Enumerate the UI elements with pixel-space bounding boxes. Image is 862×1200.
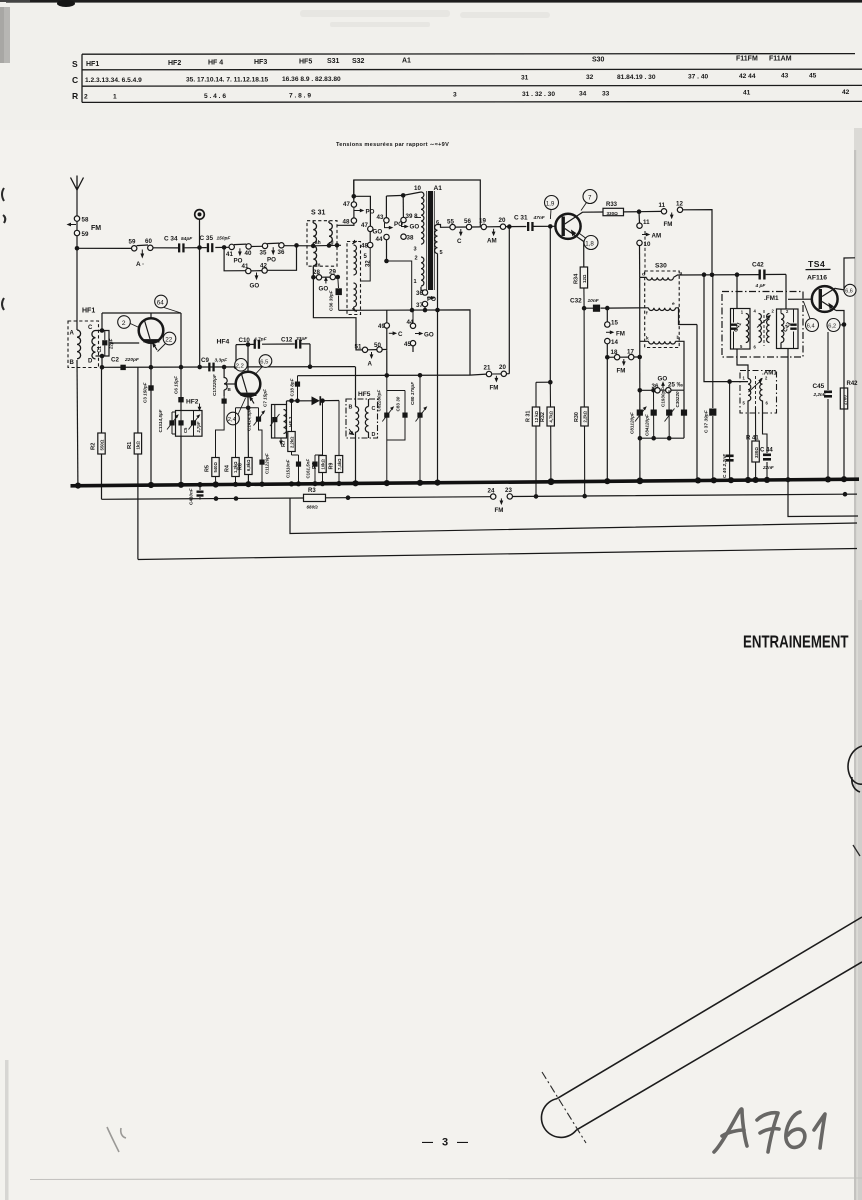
wire C-D box xyxy=(96,313,110,367)
trimmer C13 14,5pF xyxy=(158,409,179,434)
node emitter split xyxy=(236,406,259,411)
wire 43 top to A1 xyxy=(386,192,421,198)
scan edge: top black line xyxy=(0,0,862,7)
svg-text:4 pF: 4 pF xyxy=(755,283,767,289)
svg-text:37: 37 xyxy=(416,302,423,309)
svg-text:C17220pF: C17220pF xyxy=(212,374,217,396)
capacitor C2 220pF xyxy=(111,357,140,371)
wire: return line L1 below bus xyxy=(102,492,858,501)
node base T3 xyxy=(548,224,553,382)
svg-text:24: 24 xyxy=(488,488,495,495)
wire: main AM/FM selector line xyxy=(77,246,313,249)
resistor R33 330 xyxy=(603,202,624,216)
svg-text:R5: R5 xyxy=(205,465,211,472)
svg-text:C5: C5 xyxy=(183,427,188,433)
resistor R7 2,2k xyxy=(281,399,299,456)
svg-text:C: C xyxy=(398,331,403,338)
capacitor C15 10nF xyxy=(286,455,302,484)
svg-text:C1414,5pF: C1414,5pF xyxy=(247,408,252,431)
svg-text:48: 48 xyxy=(343,219,350,226)
S30 coil k-b xyxy=(640,335,684,390)
svg-text:GO: GO xyxy=(250,283,260,290)
transistor T2 xyxy=(224,345,260,404)
voltage circle 2,4 xyxy=(227,398,246,425)
svg-text:HF5: HF5 xyxy=(358,391,371,398)
svg-text:C 34: C 34 xyxy=(164,236,178,243)
wire 12 to right vertical xyxy=(683,210,712,273)
switch contact 10 xyxy=(637,233,661,249)
svg-text:S31: S31 xyxy=(327,58,340,65)
S32 coil upper xyxy=(352,240,357,275)
svg-text:17: 17 xyxy=(627,349,634,356)
svg-text:50: 50 xyxy=(374,342,381,349)
svg-text:10: 10 xyxy=(414,185,421,192)
svg-text:81.84.19 . 30: 81.84.19 . 30 xyxy=(617,74,656,81)
svg-text:36: 36 xyxy=(278,249,285,256)
svg-text:19: 19 xyxy=(479,217,486,224)
svg-text:C81120pF: C81120pF xyxy=(629,412,634,434)
switch contact 21 xyxy=(470,365,492,377)
svg-text:5: 5 xyxy=(440,250,443,256)
svg-text:C7 15pF: C7 15pF xyxy=(263,389,268,407)
wire S30 d down to bus xyxy=(638,277,643,481)
svg-text:R9: R9 xyxy=(328,463,334,470)
resistor R4 1,3k xyxy=(225,408,240,485)
svg-text:41: 41 xyxy=(743,90,751,97)
svg-text:S30: S30 xyxy=(592,57,605,64)
title: measurement note xyxy=(336,142,449,148)
switch contact 18 xyxy=(611,349,620,360)
svg-text:34: 34 xyxy=(579,91,587,98)
svg-text:47nF: 47nF xyxy=(533,215,546,221)
switch wiper FM arrow xyxy=(67,221,102,232)
svg-text:R1: R1 xyxy=(127,441,133,449)
bandswitch S32 dashed box xyxy=(347,242,361,315)
node 28-29 line xyxy=(311,275,340,293)
svg-text:35. 17.10.14. 7. 11.12.18.15: 35. 17.10.14. 7. 11.12.18.15 xyxy=(186,77,268,84)
svg-text:1,9: 1,9 xyxy=(546,200,555,207)
svg-text:R 31: R 31 xyxy=(525,411,531,422)
node C34/C35 junction xyxy=(197,220,202,370)
svg-text:59: 59 xyxy=(129,239,136,246)
svg-text:C9: C9 xyxy=(201,357,209,364)
bus junction dots xyxy=(75,476,847,489)
bottom left pencil squiggle xyxy=(107,1127,126,1152)
node main line left xyxy=(75,246,80,251)
FM1 unit C43 xyxy=(777,309,799,349)
capacitor C45 2,2nF xyxy=(813,332,833,479)
switch contact 59 xyxy=(74,230,89,238)
svg-text:41: 41 xyxy=(226,251,233,258)
svg-text:42: 42 xyxy=(260,262,267,269)
svg-text:33pF: 33pF xyxy=(296,336,308,342)
svg-text:HF 4: HF 4 xyxy=(208,60,223,67)
capacitor C3 150pF xyxy=(143,367,154,485)
capacitor C12 33pF xyxy=(281,336,308,349)
svg-text:R42: R42 xyxy=(847,381,859,387)
svg-text:k: k xyxy=(646,336,649,342)
svg-text:48: 48 xyxy=(361,243,368,250)
resistor R32 4,7k xyxy=(540,382,554,482)
svg-text:a: a xyxy=(680,272,683,277)
svg-text:R2: R2 xyxy=(91,443,97,450)
wire to main line xyxy=(76,236,78,330)
svg-text:7 . 8 . 9: 7 . 8 . 9 xyxy=(289,93,311,100)
node S31 on line xyxy=(311,243,341,248)
node y367 dots xyxy=(100,364,313,369)
trimmer C19 30pF xyxy=(661,388,675,439)
svg-text:150pF: 150pF xyxy=(217,236,232,242)
capacitor C32 10nF xyxy=(570,298,607,312)
voltage circle 2,2 xyxy=(235,359,248,372)
switch contact 47b xyxy=(361,222,382,236)
S31 lower coil xyxy=(313,246,321,277)
voltage circle 22 xyxy=(158,332,176,351)
svg-text:TS4: TS4 xyxy=(808,259,825,269)
terminal post xyxy=(195,210,205,220)
trimmer C12b 2,7pF xyxy=(189,411,201,437)
svg-text:220pF: 220pF xyxy=(124,357,140,363)
wire A1 sec bottom down xyxy=(437,254,439,483)
svg-text:11: 11 xyxy=(659,202,666,209)
svg-text:32: 32 xyxy=(586,74,594,81)
svg-text:11: 11 xyxy=(643,219,650,226)
switch contact 40 xyxy=(245,244,252,258)
right margin hook artifact xyxy=(848,746,862,792)
wire: GO branch below xyxy=(224,245,296,271)
voltage circle 6,5 xyxy=(256,355,272,374)
svg-text:C2: C2 xyxy=(111,357,119,364)
capacitor C34 54pF xyxy=(164,236,193,253)
svg-text:12 kΩ: 12 kΩ xyxy=(534,410,539,422)
wire: diode detector line xyxy=(287,401,340,405)
capacitor C11 220pF xyxy=(259,453,269,484)
capacitor C30 220 xyxy=(675,391,687,416)
svg-text:R 41: R 41 xyxy=(746,436,759,442)
capacitor C6 15pF line xyxy=(174,313,184,485)
svg-text:16.36 8.9 . 82.83.80: 16.36 8.9 . 82.83.80 xyxy=(282,76,341,83)
transistor T3 xyxy=(555,214,580,239)
svg-text:FM: FM xyxy=(490,385,499,392)
svg-text:C3 150pF: C3 150pF xyxy=(143,382,148,403)
svg-text:ENTRAINEMENT: ENTRAINEMENT xyxy=(743,632,849,652)
switch contact 17 xyxy=(617,349,635,375)
switch contact 11b xyxy=(637,212,650,229)
svg-text:330Ω: 330Ω xyxy=(754,447,759,458)
trimmer C5 xyxy=(178,411,187,437)
svg-text:2,7pF: 2,7pF xyxy=(196,421,201,433)
switch contact 11 xyxy=(659,202,667,214)
switch contact 47a xyxy=(343,180,375,216)
svg-text:D: D xyxy=(372,432,376,438)
svg-text:5 . 4 . 6: 5 . 4 . 6 xyxy=(204,93,226,100)
switch contact 43 xyxy=(377,196,404,230)
svg-text:C161,5nF: C161,5nF xyxy=(306,459,311,479)
svg-text:59: 59 xyxy=(82,231,89,238)
svg-text:7: 7 xyxy=(588,195,592,202)
svg-text:20: 20 xyxy=(499,364,506,371)
left margin small marks xyxy=(2,188,5,310)
svg-text:GO: GO xyxy=(319,286,329,293)
label HF4 xyxy=(217,339,230,346)
svg-text:28: 28 xyxy=(313,269,320,276)
svg-text:R8: R8 xyxy=(312,462,318,469)
svg-text:330Ω: 330Ω xyxy=(607,211,619,216)
switch contact 23 xyxy=(495,487,513,514)
trimmer C81 120pF xyxy=(629,406,647,434)
resistor R9 7,4k xyxy=(328,401,342,484)
svg-text:33: 33 xyxy=(602,91,610,98)
svg-text:37 . 40: 37 . 40 xyxy=(688,74,708,81)
wire S31 m to 51 xyxy=(313,277,356,346)
right margin tick xyxy=(853,845,860,856)
svg-text:.FM1: .FM1 xyxy=(764,295,779,302)
svg-text:GO: GO xyxy=(424,332,434,339)
switch contact 48a xyxy=(337,211,357,226)
label S32 vertical xyxy=(364,254,372,267)
capacitor C7 15pF label xyxy=(263,389,268,407)
svg-text:45: 45 xyxy=(809,73,817,80)
resistor R6 6,8k xyxy=(238,458,252,475)
svg-text:AM: AM xyxy=(487,238,497,245)
svg-text:C18 8pF: C18 8pF xyxy=(290,378,295,396)
IF transformer HF5 dash-dot box xyxy=(346,391,378,438)
voltage circle 64 xyxy=(155,295,181,313)
svg-text:56: 56 xyxy=(464,218,471,225)
coupling coil B xyxy=(224,367,231,396)
switch contact 14 xyxy=(605,338,619,346)
svg-text:540Ω: 540Ω xyxy=(213,462,218,473)
voltage circle 1,9 xyxy=(545,196,559,220)
switch contact 60 xyxy=(145,238,153,251)
capacitor C35 150pF xyxy=(200,235,232,252)
switch contact 56 xyxy=(457,218,472,245)
svg-text:A ·: A · xyxy=(136,261,144,268)
trimmer bank bottom line xyxy=(640,390,684,440)
svg-text:FM: FM xyxy=(664,221,673,228)
wire: T2 collector line y344 xyxy=(236,344,310,367)
trimmer block HF2 xyxy=(176,399,203,437)
A1 secondary coil xyxy=(435,220,443,256)
svg-text:C30220: C30220 xyxy=(675,391,680,408)
A1 ferrite core bar xyxy=(427,191,435,290)
svg-text:C83 30: C83 30 xyxy=(396,396,401,411)
svg-text:22: 22 xyxy=(165,336,173,343)
wire collector top line xyxy=(102,313,181,318)
svg-text:HF 3: HF 3 xyxy=(288,416,294,427)
FM1 unit C41 xyxy=(731,309,751,350)
contact table frame xyxy=(82,54,862,103)
svg-text:36: 36 xyxy=(416,290,423,297)
faint ghost print at top xyxy=(300,10,550,27)
svg-text:25 ‰: 25 ‰ xyxy=(668,382,684,389)
svg-text:B: B xyxy=(349,405,353,411)
resistor R42 2700 xyxy=(840,381,858,409)
resistor R34 12 xyxy=(574,267,588,308)
antenna xyxy=(71,176,84,191)
switch contact 29 xyxy=(329,269,336,280)
capacitor C36 39pF xyxy=(329,277,342,311)
svg-text:HF2: HF2 xyxy=(168,60,181,67)
scan edge: left grey strip xyxy=(0,7,10,63)
svg-text:C1314,5pF: C1314,5pF xyxy=(158,409,163,432)
capacitor C44 22nF xyxy=(760,420,774,480)
svg-text:12Ω: 12Ω xyxy=(582,274,587,283)
table row labels S C R xyxy=(72,59,78,101)
node branch right xyxy=(294,243,299,248)
switch contact 25 xyxy=(658,376,684,393)
band centre dash-dot mark xyxy=(542,1072,586,1143)
trimmer C80 175pF xyxy=(410,376,427,483)
wire C32 to S30 f xyxy=(607,307,648,309)
label ENTRAINEMENT xyxy=(743,632,849,652)
capacitor C42 4pF xyxy=(737,262,786,310)
wire FM1 verticals to AM1 xyxy=(737,349,788,480)
wire: line L2 xyxy=(290,498,857,534)
page number xyxy=(422,1137,468,1149)
svg-text:HF2: HF2 xyxy=(186,399,199,406)
svg-text:47: 47 xyxy=(361,222,368,229)
svg-text:R32: R32 xyxy=(540,412,546,422)
wire T3 collector to R33 xyxy=(578,212,603,215)
svg-text:C1: C1 xyxy=(97,346,103,353)
svg-text:31: 31 xyxy=(521,75,529,82)
svg-text:C36 39pF: C36 39pF xyxy=(329,290,334,311)
svg-text:b: b xyxy=(677,335,680,341)
voltage circle 1,8 xyxy=(580,234,599,250)
svg-text:38: 38 xyxy=(407,235,414,242)
svg-text:C80 175pF: C80 175pF xyxy=(410,382,415,405)
wire FM1 base tap to TS4 xyxy=(788,298,812,300)
bandswitch S31 dashed box xyxy=(307,210,337,267)
wire: line L3 xyxy=(138,549,857,560)
table row C text xyxy=(85,73,817,85)
capacitor C31 47nF xyxy=(514,215,546,232)
wire: AVC top line y375 xyxy=(298,373,471,378)
switch contact 59b xyxy=(129,239,137,251)
svg-text:ah: ah xyxy=(315,240,321,246)
svg-text:15: 15 xyxy=(611,320,618,327)
voltage circle 6,4 xyxy=(804,302,819,332)
switch contact 20 xyxy=(487,217,506,245)
capacitor C18 8pF xyxy=(290,376,301,403)
svg-text:GO: GO xyxy=(373,229,383,236)
wire 48b stub xyxy=(361,248,371,281)
svg-text:HF4: HF4 xyxy=(217,339,230,346)
diode D1 xyxy=(312,396,321,405)
capacitor C37 39pF xyxy=(704,275,717,481)
svg-text:36: 36 xyxy=(652,383,659,390)
svg-text:64: 64 xyxy=(157,299,165,306)
wire T2 emitter down through R6 xyxy=(247,396,249,484)
wire base feed T1 xyxy=(109,342,139,344)
A1 primary coil lower xyxy=(414,257,424,286)
svg-text:C: C xyxy=(372,406,376,412)
S31 coil g xyxy=(313,221,333,247)
wire: IF line y227 xyxy=(450,225,556,228)
svg-text:4,7pF: 4,7pF xyxy=(253,336,268,342)
wire A1 sec to main IF line xyxy=(438,225,450,228)
trimmer C14 14,5pF xyxy=(247,408,266,457)
svg-text:1: 1 xyxy=(113,94,117,101)
node C top xyxy=(100,328,105,358)
wiper bar 35-36 PO arrow xyxy=(267,243,279,263)
svg-text:20: 20 xyxy=(499,217,506,224)
capacitor C10 4,7pF xyxy=(239,336,268,349)
svg-text:PO: PO xyxy=(427,296,436,303)
wire antenna down xyxy=(76,190,78,216)
HF5 coil B-A xyxy=(349,405,359,437)
wire x697 e-tap to bus xyxy=(696,325,698,481)
svg-text:FM: FM xyxy=(495,507,504,514)
svg-text:C42: C42 xyxy=(752,262,764,269)
svg-text:HF1: HF1 xyxy=(82,308,95,315)
wire 10 down to S30 xyxy=(639,246,641,278)
svg-text:6,4: 6,4 xyxy=(807,324,815,330)
svg-text:10kΩ: 10kΩ xyxy=(320,459,325,470)
table row R text xyxy=(84,89,850,101)
svg-text:12: 12 xyxy=(676,201,683,208)
capacitor C84 120pF xyxy=(644,390,657,438)
svg-text:C: C xyxy=(88,325,93,331)
wire: top feed line y180 xyxy=(354,180,481,227)
svg-text:1,8: 1,8 xyxy=(585,240,594,247)
switch contact 20b xyxy=(490,364,510,392)
svg-text:PO: PO xyxy=(267,257,276,264)
svg-text:R3: R3 xyxy=(308,488,316,494)
IF transformer HF3 xyxy=(270,405,294,446)
dashed feed to S30 xyxy=(644,231,646,271)
switch contact 58 xyxy=(74,216,89,224)
voltage circle 2 xyxy=(118,316,139,329)
voltage circle 6,6 xyxy=(844,284,856,296)
svg-text:10nF: 10nF xyxy=(588,298,600,304)
svg-text:R34: R34 xyxy=(574,273,580,284)
svg-text:HF3: HF3 xyxy=(254,59,267,66)
switch contact 19 xyxy=(479,217,486,229)
svg-text:2,2kΩ: 2,2kΩ xyxy=(582,410,587,422)
svg-text:A: A xyxy=(70,331,75,337)
table row S text xyxy=(86,56,792,69)
S30 coil d-a xyxy=(640,272,683,281)
svg-text:C10: C10 xyxy=(239,337,251,344)
wire: AVC line y367 xyxy=(102,366,355,369)
A1 primary coil upper xyxy=(414,192,424,262)
svg-text:55: 55 xyxy=(447,219,454,226)
svg-text:R: R xyxy=(72,91,78,101)
svg-text:22pF: 22pF xyxy=(109,338,114,350)
resistor R8 10k xyxy=(312,398,326,483)
svg-text:AM: AM xyxy=(652,233,662,240)
svg-text:C12: C12 xyxy=(281,337,293,344)
wiper bar 41-40 PO arrow xyxy=(234,244,247,264)
svg-text:C82280pF: C82280pF xyxy=(376,390,381,412)
AM1 coils xyxy=(743,376,769,481)
svg-text:R6: R6 xyxy=(238,463,244,470)
svg-text:42: 42 xyxy=(842,89,850,96)
capacitor C17 220pF xyxy=(212,374,227,457)
svg-text:6,6: 6,6 xyxy=(845,289,853,295)
svg-text:C 31: C 31 xyxy=(514,215,528,222)
svg-text:B: B xyxy=(70,360,75,366)
svg-text:— 3 —: — 3 — xyxy=(422,1137,468,1149)
svg-text:C 40 2,2nF: C 40 2,2nF xyxy=(722,453,728,478)
svg-text:C: C xyxy=(72,75,78,85)
svg-text:C11220pF: C11220pF xyxy=(265,453,270,474)
capacitor C4 10nF xyxy=(189,485,204,505)
svg-text:44: 44 xyxy=(376,236,383,243)
svg-text:C 35: C 35 xyxy=(200,235,214,242)
